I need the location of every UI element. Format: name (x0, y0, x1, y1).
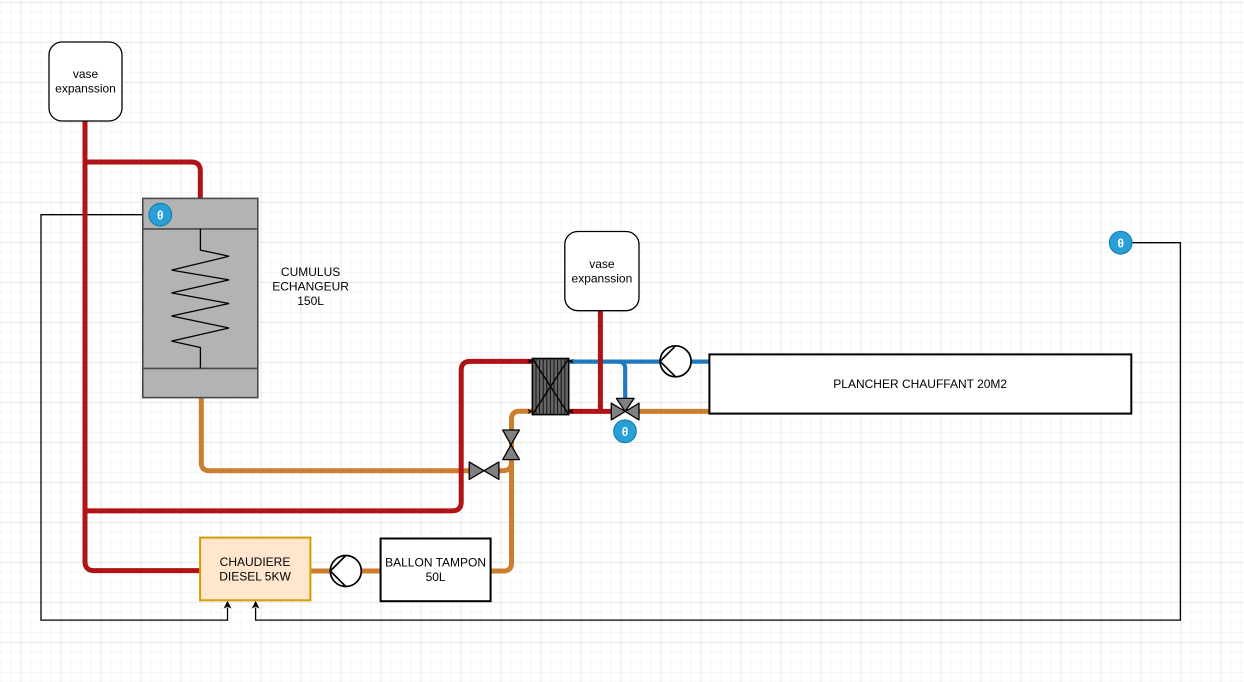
svg-text:150L: 150L (297, 294, 324, 308)
svg-text:50L: 50L (426, 570, 446, 584)
svg-text:θ: θ (622, 425, 629, 439)
svg-text:vase: vase (589, 257, 615, 271)
svg-text:BALLON TAMPON: BALLON TAMPON (385, 556, 486, 570)
svg-text:CUMULUS: CUMULUS (281, 265, 340, 279)
svg-text:expanssion: expanssion (572, 271, 633, 285)
svg-text:θ: θ (1117, 236, 1124, 250)
svg-text:vase: vase (73, 67, 99, 81)
svg-text:expanssion: expanssion (55, 81, 116, 95)
svg-text:CHAUDIERE: CHAUDIERE (220, 555, 291, 569)
svg-text:PLANCHER CHAUFFANT 20M2: PLANCHER CHAUFFANT 20M2 (833, 377, 1007, 391)
svg-text:DIESEL 5KW: DIESEL 5KW (219, 569, 291, 583)
svg-text:θ: θ (157, 208, 164, 222)
svg-text:ECHANGEUR: ECHANGEUR (272, 280, 349, 294)
